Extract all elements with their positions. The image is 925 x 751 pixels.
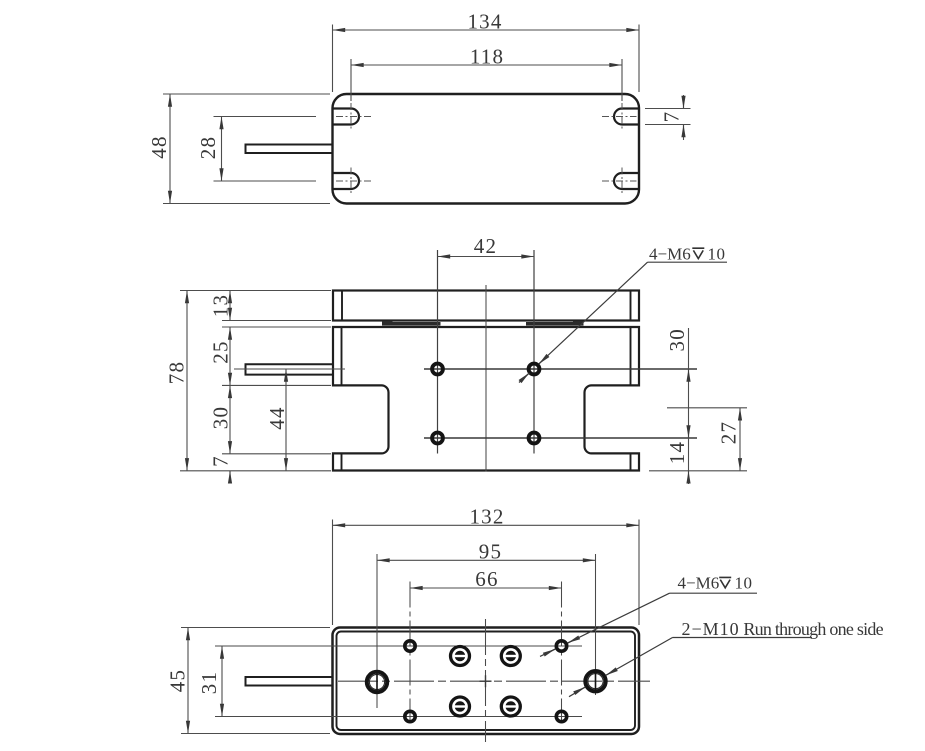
svg-text:27: 27 bbox=[717, 421, 741, 444]
svg-text:45: 45 bbox=[166, 669, 190, 692]
callout 4-M6 depth 10 (bottom view) bbox=[678, 574, 753, 593]
middle top plate inner edge lines bbox=[342, 291, 631, 321]
svg-text:30: 30 bbox=[665, 328, 689, 351]
leader shoulder bottom M10 callout bbox=[673, 637, 813, 639]
bottom M6 hole 1 bbox=[405, 641, 415, 651]
top view body outline bbox=[333, 94, 640, 204]
slot bottom-right bbox=[614, 173, 638, 189]
dim 78 extension lines bbox=[180, 291, 331, 471]
top view left pin bbox=[246, 145, 333, 154]
slot top-left bbox=[334, 109, 360, 125]
slot centerline cross top-right bbox=[602, 103, 637, 130]
svg-text:28: 28 bbox=[196, 136, 220, 159]
bottom view inner outline bbox=[337, 632, 636, 731]
bottom slotted hole 4 bbox=[501, 697, 520, 716]
dim 31 line bbox=[221, 646, 223, 717]
svg-text:10: 10 bbox=[735, 574, 753, 593]
dim 45 line bbox=[187, 628, 189, 734]
bottom center cross bbox=[480, 675, 492, 687]
leader shoulder middle callout bbox=[648, 261, 728, 263]
leader shoulder bottom M6 callout bbox=[670, 592, 758, 594]
middle left tab bbox=[246, 364, 334, 374]
bottom M6 row centerlines bbox=[215, 646, 582, 717]
svg-text:44: 44 bbox=[265, 406, 289, 429]
middle top plate outline bbox=[333, 291, 639, 321]
svg-text:66: 66 bbox=[475, 567, 498, 591]
leader line bottom M6 callout bbox=[540, 593, 670, 656]
dim 134 line bbox=[333, 29, 640, 31]
svg-text:132: 132 bbox=[469, 505, 504, 529]
svg-text:14: 14 bbox=[665, 441, 689, 464]
dim 118 extension lines bbox=[351, 59, 622, 101]
dim 134 extension lines bbox=[333, 25, 640, 93]
middle body inner edge lines bbox=[342, 327, 631, 471]
dim 78 line bbox=[186, 291, 188, 471]
dim 13 line bbox=[229, 291, 231, 321]
right side extension lines bbox=[649, 408, 747, 471]
middle hole A1 bbox=[432, 364, 443, 375]
middle view vertical centerline bbox=[485, 285, 487, 472]
middle hole B1 bbox=[432, 433, 443, 444]
middle hole B2 bbox=[529, 433, 540, 444]
bottom M10 hole right bbox=[585, 670, 605, 693]
dim 132 extension lines bbox=[333, 520, 640, 626]
svg-text:30: 30 bbox=[209, 406, 233, 429]
bottom view outer outline bbox=[333, 628, 640, 735]
left chain extension lines 13/25/30/7 bbox=[222, 321, 331, 454]
slot centerline cross bottom-left bbox=[336, 168, 371, 195]
middle seam bar right bbox=[526, 322, 584, 326]
svg-text:10: 10 bbox=[708, 244, 726, 263]
svg-text:4−M6: 4−M6 bbox=[649, 244, 691, 263]
svg-text:118: 118 bbox=[470, 45, 504, 69]
middle seam bar left bbox=[382, 322, 441, 326]
svg-text:7: 7 bbox=[660, 111, 684, 123]
dim 28 line bbox=[221, 117, 223, 182]
bottom M10 hole left bbox=[367, 671, 387, 693]
svg-text:25: 25 bbox=[209, 340, 233, 363]
middle tab centerline bbox=[234, 368, 345, 370]
dim 25 line bbox=[229, 327, 231, 385]
middle hole row centerlines horizontal bbox=[424, 369, 697, 438]
bottom M6 hole 3 bbox=[405, 711, 415, 721]
dim 7 extension lines bbox=[645, 109, 691, 125]
bottom view left tab bbox=[246, 677, 333, 686]
dim 28 extension lines bbox=[214, 117, 317, 182]
callout 4-M6 depth 10 (middle view) bbox=[649, 244, 726, 263]
svg-text:42: 42 bbox=[474, 234, 497, 258]
slot top-right bbox=[614, 109, 638, 125]
bottom M6 hole 2 bbox=[556, 641, 566, 651]
bottom centerline horizontal bbox=[338, 680, 650, 682]
svg-text:31: 31 bbox=[197, 671, 221, 694]
bottom M6 hole 4 bbox=[556, 711, 566, 721]
bottom centerline vertical bbox=[485, 619, 487, 742]
bottom slotted hole 1 bbox=[451, 647, 470, 666]
dim 7 bottom outside arrow bbox=[229, 471, 231, 481]
svg-text:2−M10 Run through one side: 2−M10 Run through one side bbox=[682, 619, 884, 639]
dim 44 line bbox=[285, 369, 287, 471]
dim 95 line bbox=[377, 559, 596, 561]
bottom M6 column centerlines bbox=[410, 582, 562, 724]
dim 42 line bbox=[438, 256, 535, 258]
dim 48 line bbox=[169, 94, 171, 204]
dim 27 line bbox=[739, 408, 741, 471]
dim 132 line bbox=[333, 524, 640, 526]
middle main body outline bbox=[333, 327, 639, 471]
slot centerline cross bottom-right bbox=[602, 168, 637, 195]
svg-text:48: 48 bbox=[147, 135, 171, 158]
dim 45 extension lines bbox=[181, 628, 330, 734]
leader line middle callout bbox=[519, 262, 648, 382]
svg-text:134: 134 bbox=[467, 10, 502, 34]
middle hole A2 bbox=[529, 364, 540, 375]
svg-text:13: 13 bbox=[209, 294, 233, 317]
bottom slotted hole 2 bbox=[501, 647, 520, 666]
right stacked dim line 30/14 bbox=[688, 328, 690, 484]
bottom M10 column centerlines bbox=[377, 554, 596, 708]
dim 118 line bbox=[351, 64, 622, 66]
bottom slotted hole 3 bbox=[451, 697, 470, 716]
leader line bottom M10 callout bbox=[569, 638, 673, 697]
svg-text:95: 95 bbox=[479, 540, 502, 564]
dim 7 line with outside arrows bbox=[683, 95, 685, 140]
svg-text:7: 7 bbox=[209, 455, 233, 467]
slot centerline cross top-left bbox=[336, 103, 371, 130]
dim 30 left line bbox=[229, 385, 231, 453]
svg-text:4−M6: 4−M6 bbox=[678, 574, 720, 593]
middle hole centerlines vertical bbox=[438, 250, 535, 454]
dim 66 line bbox=[410, 587, 562, 589]
svg-text:78: 78 bbox=[165, 361, 189, 384]
dim 48 extension lines bbox=[163, 94, 330, 204]
slot bottom-left bbox=[334, 173, 360, 189]
